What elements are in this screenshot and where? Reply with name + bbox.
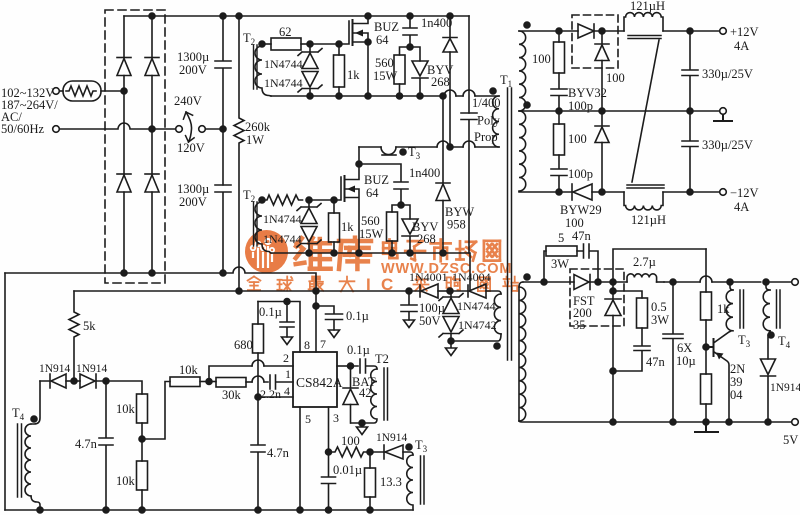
ground open triangle drive xyxy=(357,423,368,435)
svg-text:3W: 3W xyxy=(551,257,569,271)
capacitor C15 2.2n xyxy=(264,375,293,389)
wire Vcc rail xyxy=(74,290,409,292)
node bias center xyxy=(71,378,77,384)
svg-text:330µ/25V: 330µ/25V xyxy=(702,67,753,81)
svg-text:1k: 1k xyxy=(347,68,360,82)
node 1k top xyxy=(336,41,342,47)
capacitor C1 1300u/200V upper xyxy=(215,16,231,185)
diode D18 1N914 left xyxy=(40,374,50,388)
pin labels 8 7 xyxy=(304,337,326,352)
hump rail B over cap line xyxy=(463,141,475,147)
svg-text:15W: 15W xyxy=(359,227,384,241)
winding T4 control xyxy=(25,424,31,496)
svg-text:42: 42 xyxy=(359,386,372,400)
bridge dashed box xyxy=(105,10,165,283)
node T4 phasing dot xyxy=(768,332,774,338)
capacitor C8 100p snubber lower xyxy=(551,155,567,192)
switch SW1 240V/120V xyxy=(176,126,183,133)
node bridge AC right xyxy=(149,126,155,132)
watermark logo circle xyxy=(245,230,518,294)
svg-text:1N4004: 1N4004 xyxy=(452,270,491,284)
node T2 upper phasing dot xyxy=(259,41,265,47)
wire thermistor to bridge xyxy=(101,90,124,92)
capacitor C12 47n damper xyxy=(613,328,650,371)
resistor R14 5k xyxy=(69,291,79,381)
capacitor C20 0.1u drive xyxy=(351,359,378,373)
svg-text:560: 560 xyxy=(375,56,394,70)
winding T2 upper xyxy=(255,46,271,96)
winding T1 secondary 5V xyxy=(519,282,523,421)
capacitor C10 100u/50V xyxy=(401,291,417,320)
svg-text:35: 35 xyxy=(573,318,586,332)
node Q2 drain junction xyxy=(356,161,362,167)
capacitor C18 0.1u Vcc xyxy=(316,306,343,330)
capacitor C14 4.7n bias xyxy=(99,381,113,510)
node pin6 xyxy=(348,363,354,369)
svg-text:5k: 5k xyxy=(83,319,96,333)
svg-text:0.01µ: 0.01µ xyxy=(333,463,362,477)
svg-text:10k: 10k xyxy=(116,474,136,488)
resistor R11 0.5/3W xyxy=(613,291,642,298)
svg-text:T4: T4 xyxy=(778,334,791,350)
node freewheel branch xyxy=(610,288,616,294)
resistor R4 560/15W upper xyxy=(400,47,411,55)
svg-text:5: 5 xyxy=(558,231,564,245)
node T1 sec top phasing dot xyxy=(524,22,530,28)
svg-text:4A: 4A xyxy=(734,200,749,214)
resistor R3 1k xyxy=(338,44,340,55)
diode D15 FST20035 xyxy=(574,275,589,290)
node freewheel to rail B xyxy=(447,144,453,150)
wire primary return line xyxy=(5,267,316,291)
wire rail A upper cell bottom xyxy=(271,95,499,97)
node gate row lower xyxy=(306,197,312,203)
diode D13 1N4001 xyxy=(409,285,420,297)
node zener bottom xyxy=(448,338,454,344)
hump rail B over BYW958 line xyxy=(437,141,449,147)
svg-text:1N4742: 1N4742 xyxy=(458,318,497,332)
svg-text:3: 3 xyxy=(333,411,339,425)
svg-text:200V: 200V xyxy=(179,63,207,77)
terminal 0V xyxy=(720,108,727,115)
resistor R15 10k upper xyxy=(106,381,142,394)
core T2 lower xyxy=(254,202,258,246)
capacitor C9 330u/25V lower xyxy=(682,111,698,192)
hump rail A over cap line xyxy=(463,90,475,96)
capacitor C7 330u/25V upper xyxy=(682,31,698,111)
svg-text:BUZ: BUZ xyxy=(364,173,389,187)
ground symbol 5V xyxy=(695,422,718,432)
node T3 phasing dot xyxy=(400,149,406,155)
svg-text:04: 04 xyxy=(730,388,743,402)
dashed box FST xyxy=(570,269,624,326)
node 5V main xyxy=(610,279,616,285)
node feedback xyxy=(206,379,212,385)
svg-text:1N4001: 1N4001 xyxy=(409,270,448,284)
capacitor C16 4.7n comp xyxy=(251,397,265,510)
svg-text:10k: 10k xyxy=(179,363,199,377)
svg-text:1W: 1W xyxy=(246,133,264,147)
svg-text:39: 39 xyxy=(730,375,743,389)
capacitor C2 1300u/200V lower xyxy=(215,185,231,273)
node snubber junction upper xyxy=(407,44,413,50)
inductor L2 121uH lower xyxy=(624,192,663,210)
svg-text:1N4744: 1N4744 xyxy=(263,232,302,246)
ground symbol 0V xyxy=(714,115,732,122)
capacitor C17 0.1u Vref xyxy=(280,302,294,338)
diode D8 BYV268 lower xyxy=(401,205,410,219)
node gate row upper xyxy=(307,41,313,47)
ground open triangle below zeners xyxy=(446,341,457,356)
resistor R16 10k lower xyxy=(141,439,143,461)
svg-text:13.3: 13.3 xyxy=(380,475,402,489)
svg-text:5V: 5V xyxy=(783,433,798,447)
zener pair Z3 1N4744/1N4742 xyxy=(439,291,463,301)
resistor R21 13.3 xyxy=(369,452,371,468)
IC U1 CS842A xyxy=(293,352,337,407)
wire T1 sec mid tap xyxy=(518,110,520,112)
node Q3 base xyxy=(703,344,709,350)
watermark big chars 维库 xyxy=(296,238,331,269)
ground open triangle Vcc cap xyxy=(329,330,340,338)
node Q1 source arm xyxy=(365,39,371,45)
svg-text:BUZ: BUZ xyxy=(374,20,399,34)
wire Vref rail pin8 xyxy=(258,302,300,353)
svg-text:3W: 3W xyxy=(651,313,669,327)
wire gate row to 1k xyxy=(310,43,339,45)
node aux mid xyxy=(447,288,453,294)
node snubber junction lower xyxy=(398,202,404,208)
ground open triangle below 100u xyxy=(404,320,415,328)
watermark slogan row xyxy=(248,277,261,291)
resistor R2 62 xyxy=(262,43,271,45)
wire 12V top rail xyxy=(519,30,720,32)
node aux Vcc junction xyxy=(406,288,412,294)
capacitor C3 1n400 upper xyxy=(403,16,417,47)
svg-text:2N: 2N xyxy=(730,362,745,376)
core T2 control xyxy=(384,368,388,420)
node -12V filter xyxy=(687,189,693,195)
node 47n return xyxy=(610,368,616,374)
node 260k to Vcc rail xyxy=(236,288,242,294)
wire T4 winding bottom to rail xyxy=(31,496,40,510)
svg-text:268: 268 xyxy=(431,75,450,89)
transformer T2 lower label xyxy=(243,188,255,204)
diode D12 BYW29 xyxy=(571,184,573,200)
wire -12V rail xyxy=(519,191,720,193)
svg-text:T3: T3 xyxy=(415,438,428,454)
svg-text:T2: T2 xyxy=(375,352,389,366)
svg-text:64: 64 xyxy=(376,33,389,47)
svg-text:1N914: 1N914 xyxy=(376,432,408,444)
node bias right xyxy=(103,378,109,384)
wire pin4 xyxy=(258,396,293,398)
svg-text:2.2n: 2.2n xyxy=(260,387,281,401)
node 0.1u Vref xyxy=(284,299,290,305)
node T1 sec mid phasing dot xyxy=(524,102,530,108)
svg-text:7: 7 xyxy=(320,337,326,351)
resistor R1 260k/1W xyxy=(234,16,244,290)
capacitor C13 6X10u xyxy=(663,282,683,422)
wire Vcc pin7 xyxy=(315,291,317,352)
wire pin6 output xyxy=(337,365,351,367)
node T1 aux phasing dot xyxy=(494,343,500,349)
svg-text:10k: 10k xyxy=(116,402,136,416)
diode D9 rectifier +12V xyxy=(578,24,594,38)
svg-text:1k: 1k xyxy=(717,302,730,316)
node top rail snubber xyxy=(556,28,562,34)
winding T1 primary xyxy=(493,96,499,147)
svg-text:1300µ: 1300µ xyxy=(177,50,209,64)
svg-text:5: 5 xyxy=(305,412,311,426)
terminal neutral input xyxy=(53,126,60,133)
wire mid rail 0V xyxy=(519,110,720,112)
resistor R7 560/15W lower xyxy=(392,205,401,212)
node snubber 5V right xyxy=(595,279,601,285)
core T4 control xyxy=(18,424,22,497)
wire 5V top rail xyxy=(664,281,792,283)
diode D20 1N914 sense xyxy=(370,445,384,459)
svg-text:1: 1 xyxy=(285,367,291,381)
svg-text:200V: 200V xyxy=(179,195,207,209)
svg-text:260k: 260k xyxy=(245,120,271,134)
zener pair Z2 1N4744 x2 lower xyxy=(297,200,321,211)
terminal +12V xyxy=(720,28,727,35)
diode D19 1N914 right xyxy=(74,380,80,382)
svg-text:100µ: 100µ xyxy=(419,301,445,315)
terminal 5V- xyxy=(792,419,799,426)
node cap midpoint xyxy=(220,126,226,132)
coupled core bars lower xyxy=(627,185,664,188)
svg-text:1N914: 1N914 xyxy=(770,382,800,394)
wire +HV top rail xyxy=(124,15,469,17)
svg-text:100: 100 xyxy=(565,216,584,230)
svg-text:50V: 50V xyxy=(419,314,441,328)
svg-text:1N4744: 1N4744 xyxy=(264,76,303,90)
svg-text:121µH: 121µH xyxy=(631,213,666,227)
wire zener bottom to aux winding xyxy=(451,334,501,341)
wire 1k feed loop xyxy=(613,249,706,282)
diode D6 freewheel upper (on top rail) xyxy=(447,13,453,19)
resistor R12 1k 5V xyxy=(705,249,707,292)
capacitor C5 1n400 lower xyxy=(359,164,408,205)
svg-text:−12V: −12V xyxy=(730,186,759,200)
nodes lower bottom rail xyxy=(306,250,312,256)
MOSFET Q1 BUZ64 upper xyxy=(339,21,349,44)
resistor R17 10k series xyxy=(170,377,200,387)
svg-text:2.7µ: 2.7µ xyxy=(633,255,656,269)
wire gate row to 1k lower xyxy=(309,199,334,201)
coupled core bars upper xyxy=(628,36,661,39)
node T4 control phasing dot xyxy=(31,416,37,422)
winding T2 lower xyxy=(255,202,271,253)
T3 sense bar xyxy=(382,154,396,156)
core T3 control xyxy=(421,456,425,504)
ground open triangle Vref cap xyxy=(282,337,293,345)
hump rail A over freewheel line xyxy=(444,90,456,96)
bridge diode D3 bottom-left xyxy=(117,173,131,175)
bridge diode D1 top-left xyxy=(117,57,131,59)
node rail A xyxy=(307,93,313,99)
svg-text:4A: 4A xyxy=(734,39,749,53)
terminal line input xyxy=(53,88,60,95)
node T2 lower phasing dot xyxy=(259,197,265,203)
core T2 upper xyxy=(254,45,258,89)
bridge diode D4 bottom-right xyxy=(145,173,159,175)
svg-text:T3: T3 xyxy=(738,333,751,349)
core T3 5V xyxy=(740,290,744,328)
bridge left leg wires xyxy=(123,16,125,273)
MOSFET Q2 BUZ64 lower xyxy=(334,177,341,200)
svg-text:62: 62 xyxy=(279,25,292,39)
bridge diode D2 top-right xyxy=(145,57,159,59)
bridge right leg wires xyxy=(151,16,153,273)
diode D14 1N4004 xyxy=(450,285,468,297)
thermistor RT1 xyxy=(60,90,64,92)
terminal 5V+ xyxy=(792,279,799,286)
svg-text:4: 4 xyxy=(284,384,290,398)
inductor L3 2.7uH xyxy=(627,274,657,282)
diode D11 freewheel -12V xyxy=(595,111,609,126)
transformer T2 upper label xyxy=(243,31,255,47)
winding T4 5V xyxy=(766,282,770,290)
svg-text:0.1µ: 0.1µ xyxy=(259,305,282,319)
svg-text:T1: T1 xyxy=(500,73,512,89)
svg-text:958: 958 xyxy=(447,218,466,232)
svg-text:120V: 120V xyxy=(177,141,205,155)
svg-text:BYW29: BYW29 xyxy=(560,203,602,217)
svg-text:560: 560 xyxy=(361,214,380,228)
svg-text:1N914: 1N914 xyxy=(76,363,108,375)
svg-text:0.1µ: 0.1µ xyxy=(346,309,369,323)
svg-text:0.5: 0.5 xyxy=(651,300,667,314)
diode D7 BYW958 xyxy=(436,96,450,183)
hump T3 current transformer xyxy=(381,147,396,155)
watermark medium chars 电子市场网 xyxy=(383,240,397,259)
svg-text:100: 100 xyxy=(532,52,551,66)
svg-text:1N4744: 1N4744 xyxy=(264,57,303,71)
svg-text:680: 680 xyxy=(234,338,253,352)
node top rail xyxy=(149,13,155,19)
node T1 primary phasing dot xyxy=(490,88,496,94)
svg-text:CS842A: CS842A xyxy=(296,375,343,390)
resistor R20 100 sense zigzag xyxy=(329,447,369,457)
wire control bottom rail xyxy=(5,509,413,511)
terminal -12V xyxy=(720,189,727,196)
node 1k top lower xyxy=(331,197,337,203)
pin labels 2 1 4 xyxy=(283,351,291,398)
node T3 5V rail xyxy=(727,279,733,285)
svg-text:4.7n: 4.7n xyxy=(75,437,98,451)
node snubber 5V left xyxy=(541,279,547,285)
winding T1 aux xyxy=(494,294,501,334)
inductor L1 121uH upper xyxy=(624,13,663,31)
svg-text:8: 8 xyxy=(304,338,310,352)
svg-text:+12V: +12V xyxy=(730,25,759,39)
svg-text:0.1µ: 0.1µ xyxy=(347,343,370,357)
wire pin2 with hump over 680 line xyxy=(209,366,293,382)
resistor R8 100 snubber upper xyxy=(558,31,560,42)
winding T3 5V xyxy=(730,282,733,290)
capacitor C11 47n snubber 5V xyxy=(577,244,598,282)
svg-text:268: 268 xyxy=(417,232,436,246)
node Q1 drain xyxy=(365,13,371,19)
resistor R18 30k xyxy=(209,381,216,383)
hump pin1 wire over 680 line xyxy=(252,376,264,382)
diode D16 freewheel 5V xyxy=(605,282,621,299)
svg-text:2: 2 xyxy=(283,351,289,365)
svg-text:240V: 240V xyxy=(174,94,202,108)
transformer T4 control label xyxy=(12,406,25,422)
node -12V freewheel xyxy=(599,189,605,195)
dashed box rectifier xyxy=(572,15,618,68)
capacitor C19 0.01u xyxy=(322,452,336,510)
svg-text:1k: 1k xyxy=(341,220,354,234)
winding T2 control xyxy=(351,369,377,423)
diode D21 BAT42 xyxy=(343,366,358,388)
transistor Q3 2N3904 xyxy=(706,339,714,356)
node T1 5V phasing dot xyxy=(524,274,530,280)
diode D10 freewheel +12V xyxy=(595,31,609,44)
svg-text:BYV32: BYV32 xyxy=(568,86,607,100)
svg-text:15W: 15W xyxy=(373,69,398,83)
resistor R5 gate zigzag lower xyxy=(262,195,303,205)
node +12V filter xyxy=(687,28,693,34)
svg-text:47n: 47n xyxy=(572,229,592,243)
coupled core diagonal xyxy=(632,40,659,182)
resistor R19 680 xyxy=(253,324,264,353)
wire divider to 10k series xyxy=(142,382,170,440)
node Vcc bypass xyxy=(313,303,319,309)
wire 5V bottom rail xyxy=(519,421,792,422)
zener pair Z1 1N4744 x2 xyxy=(298,44,322,56)
svg-text:100: 100 xyxy=(341,434,360,448)
diode D17 1N914 5V xyxy=(768,331,770,359)
svg-text:4.7n: 4.7n xyxy=(267,446,290,460)
svg-text:1N4744: 1N4744 xyxy=(263,212,302,226)
node 5V filter xyxy=(670,279,676,285)
svg-text:1N914: 1N914 xyxy=(39,363,71,375)
node sense junction xyxy=(367,449,373,455)
AC input labels xyxy=(1,86,58,136)
wire rail B corner to Q2 drain xyxy=(358,147,360,164)
node divider mid xyxy=(139,436,145,442)
wire pin3 xyxy=(328,407,330,452)
resistor R10 5/3W xyxy=(544,251,546,282)
node rectifier output xyxy=(599,28,605,34)
hump 5V rail over 1k line xyxy=(700,276,712,282)
wire left border xyxy=(4,273,6,510)
node bridge AC left xyxy=(121,88,127,94)
svg-text:6X: 6X xyxy=(677,341,692,355)
svg-text:64: 64 xyxy=(366,186,379,200)
winding T3 control xyxy=(407,455,413,510)
transformer T1 label xyxy=(500,73,512,89)
svg-text:1n400: 1n400 xyxy=(409,166,440,180)
node T4 5V rail xyxy=(763,279,769,285)
svg-text:50/60Hz: 50/60Hz xyxy=(1,122,45,136)
svg-text:121µH: 121µH xyxy=(630,0,665,13)
wire neutral to switch, hump over left bridge leg xyxy=(60,123,176,129)
resistor R6 1k lower xyxy=(333,200,335,213)
wire lower cell bottom rail xyxy=(271,253,470,291)
svg-text:T4: T4 xyxy=(12,406,25,422)
svg-text:100: 100 xyxy=(568,132,587,146)
node pin3 junction xyxy=(326,449,332,455)
svg-text:100p: 100p xyxy=(568,167,593,181)
svg-text:1300µ: 1300µ xyxy=(177,182,209,196)
svg-text:47n: 47n xyxy=(646,355,666,369)
